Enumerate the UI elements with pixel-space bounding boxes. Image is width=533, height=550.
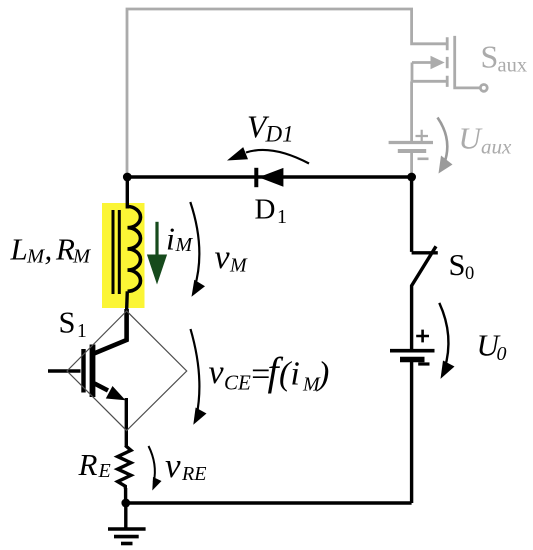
svg-text:S: S — [449, 248, 466, 282]
svg-text:0: 0 — [497, 343, 507, 365]
svg-text:M: M — [175, 234, 194, 256]
svg-text:(i: (i — [279, 356, 300, 393]
svg-text:R: R — [55, 232, 75, 267]
svg-text:v: v — [209, 354, 225, 391]
svg-text:1: 1 — [277, 206, 287, 228]
svg-text:aux: aux — [481, 135, 512, 159]
svg-text:v: v — [165, 446, 181, 485]
svg-text:D1: D1 — [265, 122, 294, 147]
svg-text:D: D — [255, 193, 276, 225]
svg-text:U: U — [459, 121, 484, 156]
svg-text:): ) — [316, 356, 329, 393]
svg-text:E: E — [98, 460, 111, 482]
svg-text:S: S — [59, 306, 76, 340]
svg-text:R: R — [78, 447, 98, 482]
svg-text:M: M — [72, 246, 92, 268]
svg-text:aux: aux — [498, 55, 528, 77]
svg-text:1: 1 — [77, 321, 87, 342]
svg-text:M: M — [229, 255, 248, 277]
svg-text:i: i — [166, 221, 175, 257]
svg-text:L: L — [10, 232, 28, 267]
svg-text:S: S — [481, 39, 499, 75]
svg-text:RE: RE — [181, 463, 206, 485]
svg-text:CE: CE — [224, 371, 251, 395]
svg-text:,: , — [45, 232, 53, 267]
svg-text:M: M — [26, 246, 46, 268]
svg-text:v: v — [215, 239, 231, 276]
svg-text:0: 0 — [465, 264, 474, 284]
